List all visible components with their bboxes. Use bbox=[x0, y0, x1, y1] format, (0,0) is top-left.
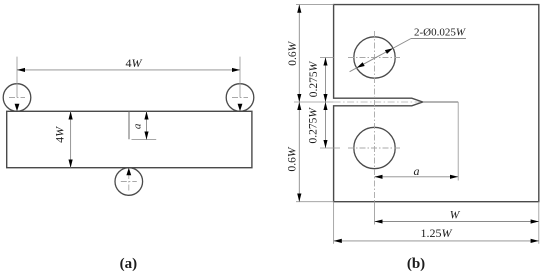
crack length extension (b) bbox=[457, 102, 459, 181]
svg-text:1.25W: 1.25W bbox=[421, 226, 453, 240]
svg-text:a: a bbox=[132, 123, 144, 129]
extension hole centerline below plate bbox=[374, 202, 376, 225]
extension line hole top center bbox=[320, 57, 334, 59]
roller support right bbox=[226, 84, 254, 112]
notch centerline extension bbox=[294, 101, 334, 103]
span dimension 4W extension right bbox=[239, 57, 241, 98]
hole vertical centerline bbox=[374, 31, 376, 202]
svg-text:4W: 4W bbox=[53, 126, 67, 143]
roller support bottom bbox=[115, 168, 143, 196]
span dimension 4W extension left bbox=[16, 57, 18, 98]
svg-text:0.6W: 0.6W bbox=[287, 40, 299, 65]
svg-text:a: a bbox=[414, 164, 420, 178]
svg-text:(b): (b) bbox=[407, 256, 425, 272]
pin hole top bbox=[348, 37, 401, 78]
hole label 2-D0.025W bbox=[414, 26, 466, 38]
dimension 0.6W bottom bbox=[286, 102, 299, 202]
crack (a) bbox=[128, 111, 130, 139]
notch centerline bbox=[334, 101, 420, 103]
dimension 0.6W top bbox=[287, 5, 299, 102]
specimen beam (a) bbox=[7, 111, 252, 167]
extension line plate top bbox=[296, 4, 334, 6]
roller support left bbox=[3, 84, 31, 112]
svg-text:0.275W: 0.275W bbox=[308, 60, 320, 97]
extension left edge below plate bbox=[333, 202, 335, 244]
span dimension 4W bbox=[17, 56, 240, 70]
crack length dimension a bbox=[132, 111, 147, 139]
hole diameter leader bbox=[350, 39, 466, 72]
extension line hole bottom center bbox=[320, 147, 340, 149]
crack (b) bbox=[423, 101, 459, 103]
overall width dimension 1.25W bbox=[334, 226, 539, 241]
extension right edge below plate bbox=[538, 202, 540, 244]
caption (a) bbox=[120, 256, 138, 272]
dimension 0.275W bottom bbox=[308, 102, 326, 148]
dimension 0.275W top bbox=[308, 58, 326, 103]
svg-text:0.275W: 0.275W bbox=[308, 107, 320, 144]
caption (b) bbox=[407, 256, 425, 272]
pin hole bottom bbox=[348, 127, 401, 168]
svg-text:2-Ø0.025W: 2-Ø0.025W bbox=[414, 26, 466, 38]
svg-text:(a): (a) bbox=[120, 256, 138, 272]
svg-text:W: W bbox=[450, 210, 461, 222]
width dimension W bbox=[375, 210, 539, 222]
specimen plate (b) with notch bbox=[334, 5, 539, 202]
svg-text:4W: 4W bbox=[126, 56, 143, 70]
extension line plate bottom left bbox=[296, 201, 334, 203]
crack length dimension a extension bbox=[132, 139, 157, 141]
depth dimension 4W bbox=[53, 111, 71, 167]
svg-text:0.6W: 0.6W bbox=[286, 146, 298, 171]
crack length dimension a (b) bbox=[375, 164, 459, 178]
